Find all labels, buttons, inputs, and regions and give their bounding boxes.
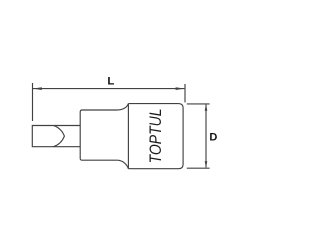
neck outline [80,110,117,160]
svg-text:D: D [209,132,217,144]
svg-text:TOPTUL: TOPTUL [147,108,165,163]
dimension D extension line top [187,103,210,105]
blade grind curve [54,126,65,147]
arrowhead L left [33,87,42,90]
socket body face line [127,104,129,169]
dimension L extension line left [32,83,34,121]
neck top fillet [118,104,129,110]
arrowhead L right [176,87,185,90]
dimension D extension line bottom [187,167,210,169]
arrowhead D top [205,104,208,111]
svg-text:L: L [107,76,114,88]
neck bottom fillet [118,160,129,169]
dimension D line [205,105,207,168]
dimension L extension line right [184,84,186,102]
arrowhead D bottom [205,161,208,168]
blade outline [32,126,80,147]
socket body outline [128,104,183,169]
dimension L line [33,88,184,90]
